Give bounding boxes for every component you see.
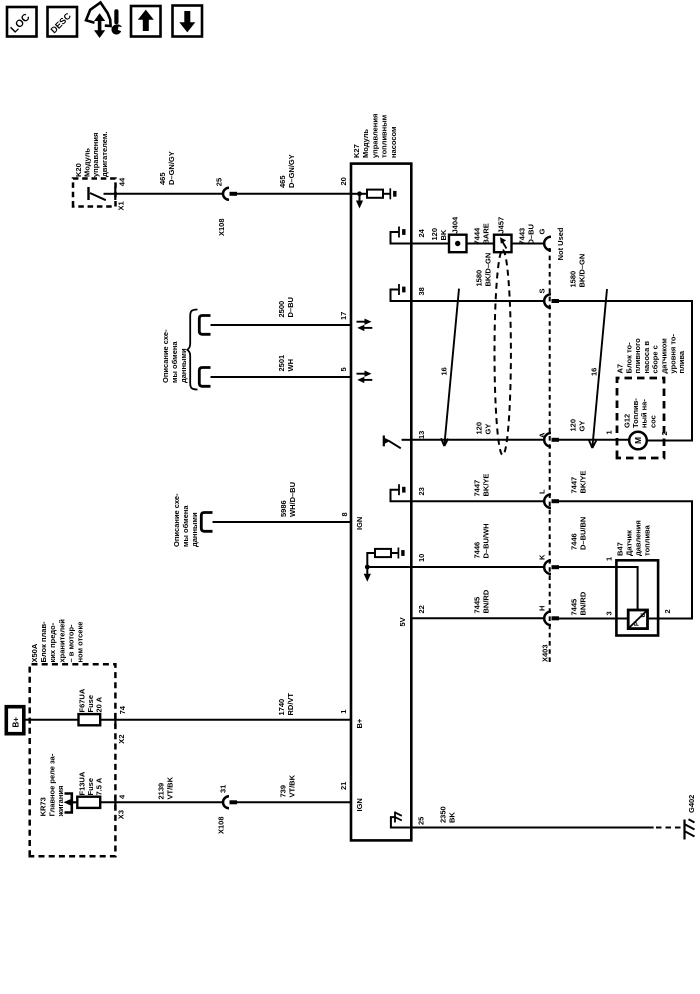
connector X3 tick	[114, 796, 116, 810]
svg-text:X108: X108	[217, 218, 226, 236]
svg-text:22: 22	[417, 605, 426, 613]
svg-text:P: P	[635, 622, 641, 626]
svg-text:739: 739	[279, 785, 288, 798]
wire label 2500 D-BU	[277, 297, 295, 317]
K27 pin 25 internal chassis ground	[391, 812, 411, 828]
svg-text:21: 21	[339, 782, 348, 790]
button down arrow	[173, 6, 203, 37]
B47 internal pressure sensor symbol	[628, 610, 647, 629]
connector pin L	[544, 494, 559, 508]
wire 1580 BK/D-GN pin 38 to connector S	[411, 300, 544, 302]
svg-text:1740: 1740	[277, 699, 286, 716]
button LOC	[7, 7, 37, 37]
svg-text:16: 16	[440, 367, 449, 375]
wire label 465 D-GN/GY (1)	[158, 151, 176, 185]
K27 pin 20 internal: wire to resistor	[351, 193, 367, 195]
svg-text:GY: GY	[578, 421, 587, 432]
splice J457	[494, 235, 512, 253]
svg-text:BARE: BARE	[482, 223, 491, 244]
fuse block X50A dashed box	[30, 664, 116, 856]
wire label 7446 D-BU/WH	[473, 524, 491, 559]
button DESC	[48, 7, 78, 37]
svg-text:2501: 2501	[277, 355, 286, 372]
wire label 465 D-GN/GY (2)	[278, 154, 296, 188]
svg-text:1580: 1580	[475, 270, 484, 287]
svg-text:G402: G402	[687, 795, 696, 813]
svg-text:120: 120	[475, 422, 484, 435]
data link brace	[187, 310, 197, 390]
svg-text:23: 23	[417, 487, 426, 495]
svg-text:жигания: жигания	[56, 786, 65, 818]
svg-text:G: G	[538, 229, 547, 235]
K27 pin 20 internal: wire resistor to ground	[383, 193, 390, 195]
K27 pin 5 internal data arrows	[357, 371, 373, 384]
svg-text:Описание схе-: Описание схе-	[172, 493, 181, 547]
svg-text:ном отсеке: ном отсеке	[76, 622, 85, 663]
svg-text:BK/D–GN: BK/D–GN	[578, 254, 587, 288]
adjust icon (glove with double arrow and wrench)	[86, 3, 122, 39]
wire label 120 GY (1)	[475, 422, 493, 435]
svg-text:F67UA: F67UA	[77, 688, 86, 712]
svg-text:120: 120	[430, 228, 439, 241]
shield ellipse around wires 1580 and 120	[495, 250, 511, 455]
svg-text:2500: 2500	[277, 301, 286, 318]
connector pin A	[544, 433, 559, 447]
svg-text:3: 3	[605, 611, 614, 615]
svg-text:Описание схе-: Описание схе-	[161, 329, 170, 383]
svg-text:Блок плав-: Блок плав-	[39, 621, 48, 663]
connector pin G	[544, 237, 551, 251]
svg-text:465: 465	[278, 175, 287, 188]
button up arrow	[131, 6, 161, 37]
svg-text:5986: 5986	[279, 500, 288, 517]
fuse F67UA	[79, 714, 101, 725]
svg-text:плива: плива	[677, 350, 686, 373]
svg-text:мы обмена: мы обмена	[170, 341, 179, 383]
svg-text:BK/YE: BK/YE	[482, 474, 491, 497]
svg-text:5V: 5V	[398, 617, 407, 626]
K27 pin 17 internal data arrows	[357, 319, 373, 332]
K27 pin 13 internal switch	[384, 436, 412, 449]
K27 pin 38 internal ground	[391, 284, 412, 301]
wire label 7445 BN/RD (1)	[473, 589, 491, 613]
wire 7446 D-BU/BN connector K to B47 pin 1	[559, 567, 638, 610]
svg-text:Not Used: Not Used	[556, 227, 565, 260]
svg-text:7446: 7446	[570, 533, 579, 550]
svg-text:Модуль: Модуль	[361, 129, 370, 158]
ground G402 symbol	[685, 819, 695, 839]
svg-text:31: 31	[219, 785, 228, 793]
fuel pump module A7 label	[616, 334, 687, 374]
svg-text:8: 8	[340, 512, 349, 516]
svg-text:1: 1	[339, 710, 348, 714]
K27 pin 10 internal wire	[367, 566, 411, 568]
svg-text:D–BU/BN: D–BU/BN	[579, 517, 588, 550]
wire label 2139 VT/BK	[157, 776, 175, 799]
svg-text:7445: 7445	[473, 597, 482, 614]
svg-text:данными: данными	[190, 512, 199, 547]
svg-text:1580: 1580	[569, 271, 578, 288]
connector X108 (pin 31)	[223, 796, 237, 808]
svg-text:L: L	[538, 489, 547, 494]
wire 7446 D-BU/WH pin 10 to connector K	[411, 566, 544, 568]
svg-text:X108: X108	[217, 816, 226, 834]
svg-text:7447: 7447	[570, 477, 579, 494]
wire 2350 BK from pin 25	[411, 827, 653, 829]
svg-text:2350: 2350	[439, 806, 448, 823]
data link label (pins 17/5)	[161, 329, 188, 383]
svg-text:A7: A7	[616, 364, 625, 374]
wire 7445 BN/RD connector H to B47 pin 3	[559, 618, 629, 620]
svg-text:X1: X1	[117, 201, 126, 210]
terminal for wire 2500	[199, 316, 210, 335]
wire F13UA to X108 (2139 VT/BK)	[100, 801, 223, 803]
svg-text:1: 1	[605, 557, 614, 561]
svg-text:сборе с: сборе с	[651, 345, 660, 373]
wire label 7446 D-BU/BN	[570, 517, 588, 550]
svg-text:F13UA: F13UA	[77, 771, 86, 795]
wire 7444 BARE J404 to J457	[467, 243, 495, 245]
svg-text:2139: 2139	[157, 783, 166, 800]
B47 internal wire pin3 through sensor	[648, 618, 659, 620]
svg-text:Датчик: Датчик	[625, 530, 634, 556]
fuse F67UA label	[77, 688, 103, 712]
svg-text:BK: BK	[439, 229, 448, 240]
svg-text:Главное реле за-: Главное реле за-	[47, 753, 56, 816]
svg-text:GY: GY	[484, 424, 493, 435]
svg-text:насосом: насосом	[389, 126, 398, 158]
svg-text:B47: B47	[616, 542, 625, 556]
module K27 label	[352, 114, 398, 158]
sensor B47 box	[616, 560, 658, 635]
svg-text:BN/RD: BN/RD	[482, 589, 491, 613]
twisted pair slash 16 (lower)	[589, 289, 607, 448]
svg-text:BK/D–GN: BK/D–GN	[484, 253, 493, 287]
svg-text:J457: J457	[497, 217, 506, 234]
relay KR73 label	[39, 753, 66, 817]
K27 pin 10 internal: junction and arrow	[364, 565, 371, 582]
K27 pin 23 internal ground	[391, 484, 412, 501]
wire 120 BK pin 24 to J404	[411, 243, 449, 245]
fuse F13UA label	[77, 771, 103, 795]
data link label (pin 8)	[172, 493, 199, 547]
svg-text:4: 4	[118, 794, 127, 799]
wire 465 D-GN/GY segment K20 to X108	[115, 193, 223, 195]
connector X1 tick	[114, 187, 116, 200]
svg-text:насоса в: насоса в	[642, 341, 651, 374]
svg-text:J404: J404	[451, 216, 460, 234]
wire 2501 WH to pin 5	[211, 376, 352, 378]
svg-text:X50A: X50A	[30, 643, 39, 662]
svg-text:K: K	[538, 554, 547, 560]
svg-text:20: 20	[339, 177, 348, 185]
svg-text:WH/D–BU: WH/D–BU	[288, 482, 297, 517]
wire 2500 D-BU to pin 17	[211, 324, 352, 326]
svg-text:17: 17	[339, 312, 348, 320]
connector pin H	[544, 612, 559, 626]
svg-text:WH: WH	[286, 359, 295, 372]
wire 2350 dashed segment	[656, 827, 681, 829]
fuel pump G12 motor	[629, 432, 647, 450]
svg-text:Fuse: Fuse	[86, 695, 95, 713]
svg-text:мы обмена: мы обмена	[181, 505, 190, 547]
svg-text:X2: X2	[117, 735, 126, 744]
K27 pin 20 internal: signal arrow	[356, 194, 363, 209]
svg-text:хранителей: хранителей	[57, 619, 66, 663]
K27 pin 20 internal resistor	[367, 190, 383, 198]
svg-text:20 A: 20 A	[95, 696, 104, 712]
svg-text:IGN: IGN	[355, 517, 364, 530]
svg-text:M: M	[633, 437, 643, 444]
wire 7445 BN/RD pin 22 to connector H	[411, 617, 544, 619]
svg-text:7446: 7446	[473, 542, 482, 559]
wire label 7447 BK/YE (1)	[473, 474, 491, 497]
svg-text:Блок то-: Блок то-	[624, 342, 633, 374]
svg-text:1: 1	[605, 430, 614, 434]
wire label 2501 WH	[277, 355, 295, 372]
splice J404	[449, 235, 467, 253]
wire 5986 WH/D-BU to pin 8	[213, 521, 352, 523]
wire 7447 BK/YE connector L to B47 pin 2	[559, 501, 692, 618]
wire 120 GY pin 13 to connector A	[411, 439, 544, 441]
fuel pump module A7 dashed box	[617, 378, 664, 458]
wire 739 VT/BK X108 to pin 21	[237, 801, 351, 803]
wire F67UA to K27 pin 1 (1740 RD/VT)	[100, 719, 351, 721]
connector pin S	[544, 294, 559, 308]
svg-text:BK/YE: BK/YE	[579, 471, 588, 494]
svg-text:13: 13	[417, 431, 426, 439]
svg-text:10: 10	[417, 554, 426, 562]
svg-text:BN/RD: BN/RD	[579, 591, 588, 615]
svg-text:S: S	[538, 288, 547, 293]
wire 465 D-GN/GY segment X108 to K27 pin 20	[237, 193, 351, 195]
toolbar (unrotated icons)	[0, 0, 230, 50]
wire label 1580 BK/D-GN (1)	[475, 253, 493, 287]
wire label 1740 RD/VT	[277, 693, 295, 716]
fuse F13UA	[77, 797, 100, 808]
svg-text:– в мотор-: – в мотор-	[66, 624, 75, 663]
module K20 label	[74, 132, 109, 178]
wire B+ to fuse F67UA	[24, 719, 79, 721]
svg-text:VT/BK: VT/BK	[288, 774, 297, 797]
svg-text:7.5 A: 7.5 A	[95, 777, 104, 795]
svg-text:120: 120	[569, 419, 578, 432]
wire label 5986 WH/D-BU	[279, 482, 297, 517]
svg-text:U: U	[641, 613, 647, 617]
svg-text:44: 44	[118, 177, 127, 186]
svg-text:ких предо-: ких предо-	[48, 622, 57, 662]
svg-text:управления: управления	[370, 114, 379, 158]
svg-text:данными: данными	[179, 348, 188, 383]
svg-text:25: 25	[215, 178, 224, 186]
svg-text:7443: 7443	[518, 228, 527, 245]
svg-text:74: 74	[118, 705, 127, 714]
svg-text:K27: K27	[352, 144, 361, 158]
svg-text:уровня то-: уровня то-	[668, 334, 677, 374]
svg-text:давления: давления	[634, 520, 643, 556]
svg-text:Fuse: Fuse	[86, 778, 95, 796]
svg-text:24: 24	[417, 228, 426, 237]
battery feed B+ box	[6, 707, 24, 734]
svg-text:IGN: IGN	[355, 798, 364, 811]
svg-text:D–GN/GY: D–GN/GY	[287, 154, 296, 188]
terminal for wire 5986	[201, 513, 212, 532]
wire label 7445 BN/RD (2)	[570, 591, 588, 615]
svg-text:пливного: пливного	[633, 338, 642, 374]
svg-text:RD/VT: RD/VT	[286, 693, 295, 716]
svg-text:X403: X403	[541, 644, 550, 662]
svg-text:25: 25	[417, 817, 426, 825]
K27 pin 10 internal resistor to ground	[367, 548, 403, 568]
connector X403 dashed boundary line	[549, 248, 551, 662]
svg-text:двигателем.: двигателем.	[100, 132, 109, 178]
K27 pin 20 internal: junction dot	[357, 191, 362, 196]
svg-text:38: 38	[417, 287, 426, 295]
svg-text:топлива: топлива	[643, 524, 652, 556]
svg-text:VT/BK: VT/BK	[166, 776, 175, 799]
svg-text:KR73: KR73	[39, 797, 48, 816]
svg-text:датчиком: датчиком	[660, 338, 669, 374]
connector X108 (pin 25)	[223, 188, 237, 200]
twisted pair slash 16 (upper)	[440, 289, 460, 446]
wire label 7447 BK/YE (2)	[570, 471, 588, 494]
wire 7443 D-BU J457 to connector G	[512, 243, 545, 245]
svg-text:B+: B+	[355, 718, 364, 728]
svg-text:D–BU: D–BU	[286, 297, 295, 317]
svg-text:D–BU: D–BU	[527, 224, 536, 244]
svg-text:A: A	[538, 432, 547, 438]
wire label 1580 BK/D-GN (2)	[569, 254, 587, 288]
svg-text:2: 2	[663, 609, 672, 613]
svg-text:7444: 7444	[473, 227, 482, 245]
wire 120 GY connector A to pump pin 1	[559, 439, 629, 441]
svg-text:X3: X3	[117, 810, 126, 819]
svg-text:сос: сос	[648, 415, 657, 428]
svg-text:7447: 7447	[473, 480, 482, 497]
wire 7447 BK/YE pin 23 to connector L	[411, 500, 544, 502]
connector pin K	[544, 560, 559, 574]
K20 internal driver switch	[89, 187, 116, 200]
svg-text:D–BU/WH: D–BU/WH	[482, 524, 491, 559]
svg-text:топливным: топливным	[380, 114, 389, 158]
relay KR73 terminal	[64, 794, 76, 813]
wire label 739 VT/BK	[279, 774, 297, 797]
svg-text:16: 16	[590, 368, 599, 376]
K27 pin 24 internal ground	[391, 227, 412, 244]
svg-text:5: 5	[339, 367, 348, 371]
svg-text:BK: BK	[448, 812, 457, 823]
wire 1580 BK/D-GN connector S to pump pin 2	[559, 301, 692, 441]
wire label 120 GY (2)	[569, 419, 587, 432]
svg-text:H: H	[538, 606, 547, 611]
wire label 120 BK	[430, 228, 448, 241]
fuel pump G12 label	[623, 398, 658, 428]
connector X2 tick	[114, 713, 116, 727]
module K20 dashed box	[73, 179, 116, 207]
terminal for wire 2501	[199, 368, 210, 387]
svg-text:D–GN/GY: D–GN/GY	[167, 151, 176, 185]
svg-text:7445: 7445	[570, 599, 579, 616]
module K27 box	[351, 164, 411, 841]
svg-text:B+: B+	[11, 717, 20, 728]
wire label 2350 BK	[439, 806, 457, 823]
K27 pin 20 internal ground	[390, 188, 395, 199]
svg-text:465: 465	[158, 172, 167, 185]
wire label 7443 D-BU	[518, 224, 536, 244]
sensor B47 label	[616, 520, 652, 556]
wire KR73 to fuse F13UA	[73, 801, 77, 803]
wire label 7444 BARE	[473, 223, 491, 244]
fuse block X50A label	[30, 619, 85, 663]
